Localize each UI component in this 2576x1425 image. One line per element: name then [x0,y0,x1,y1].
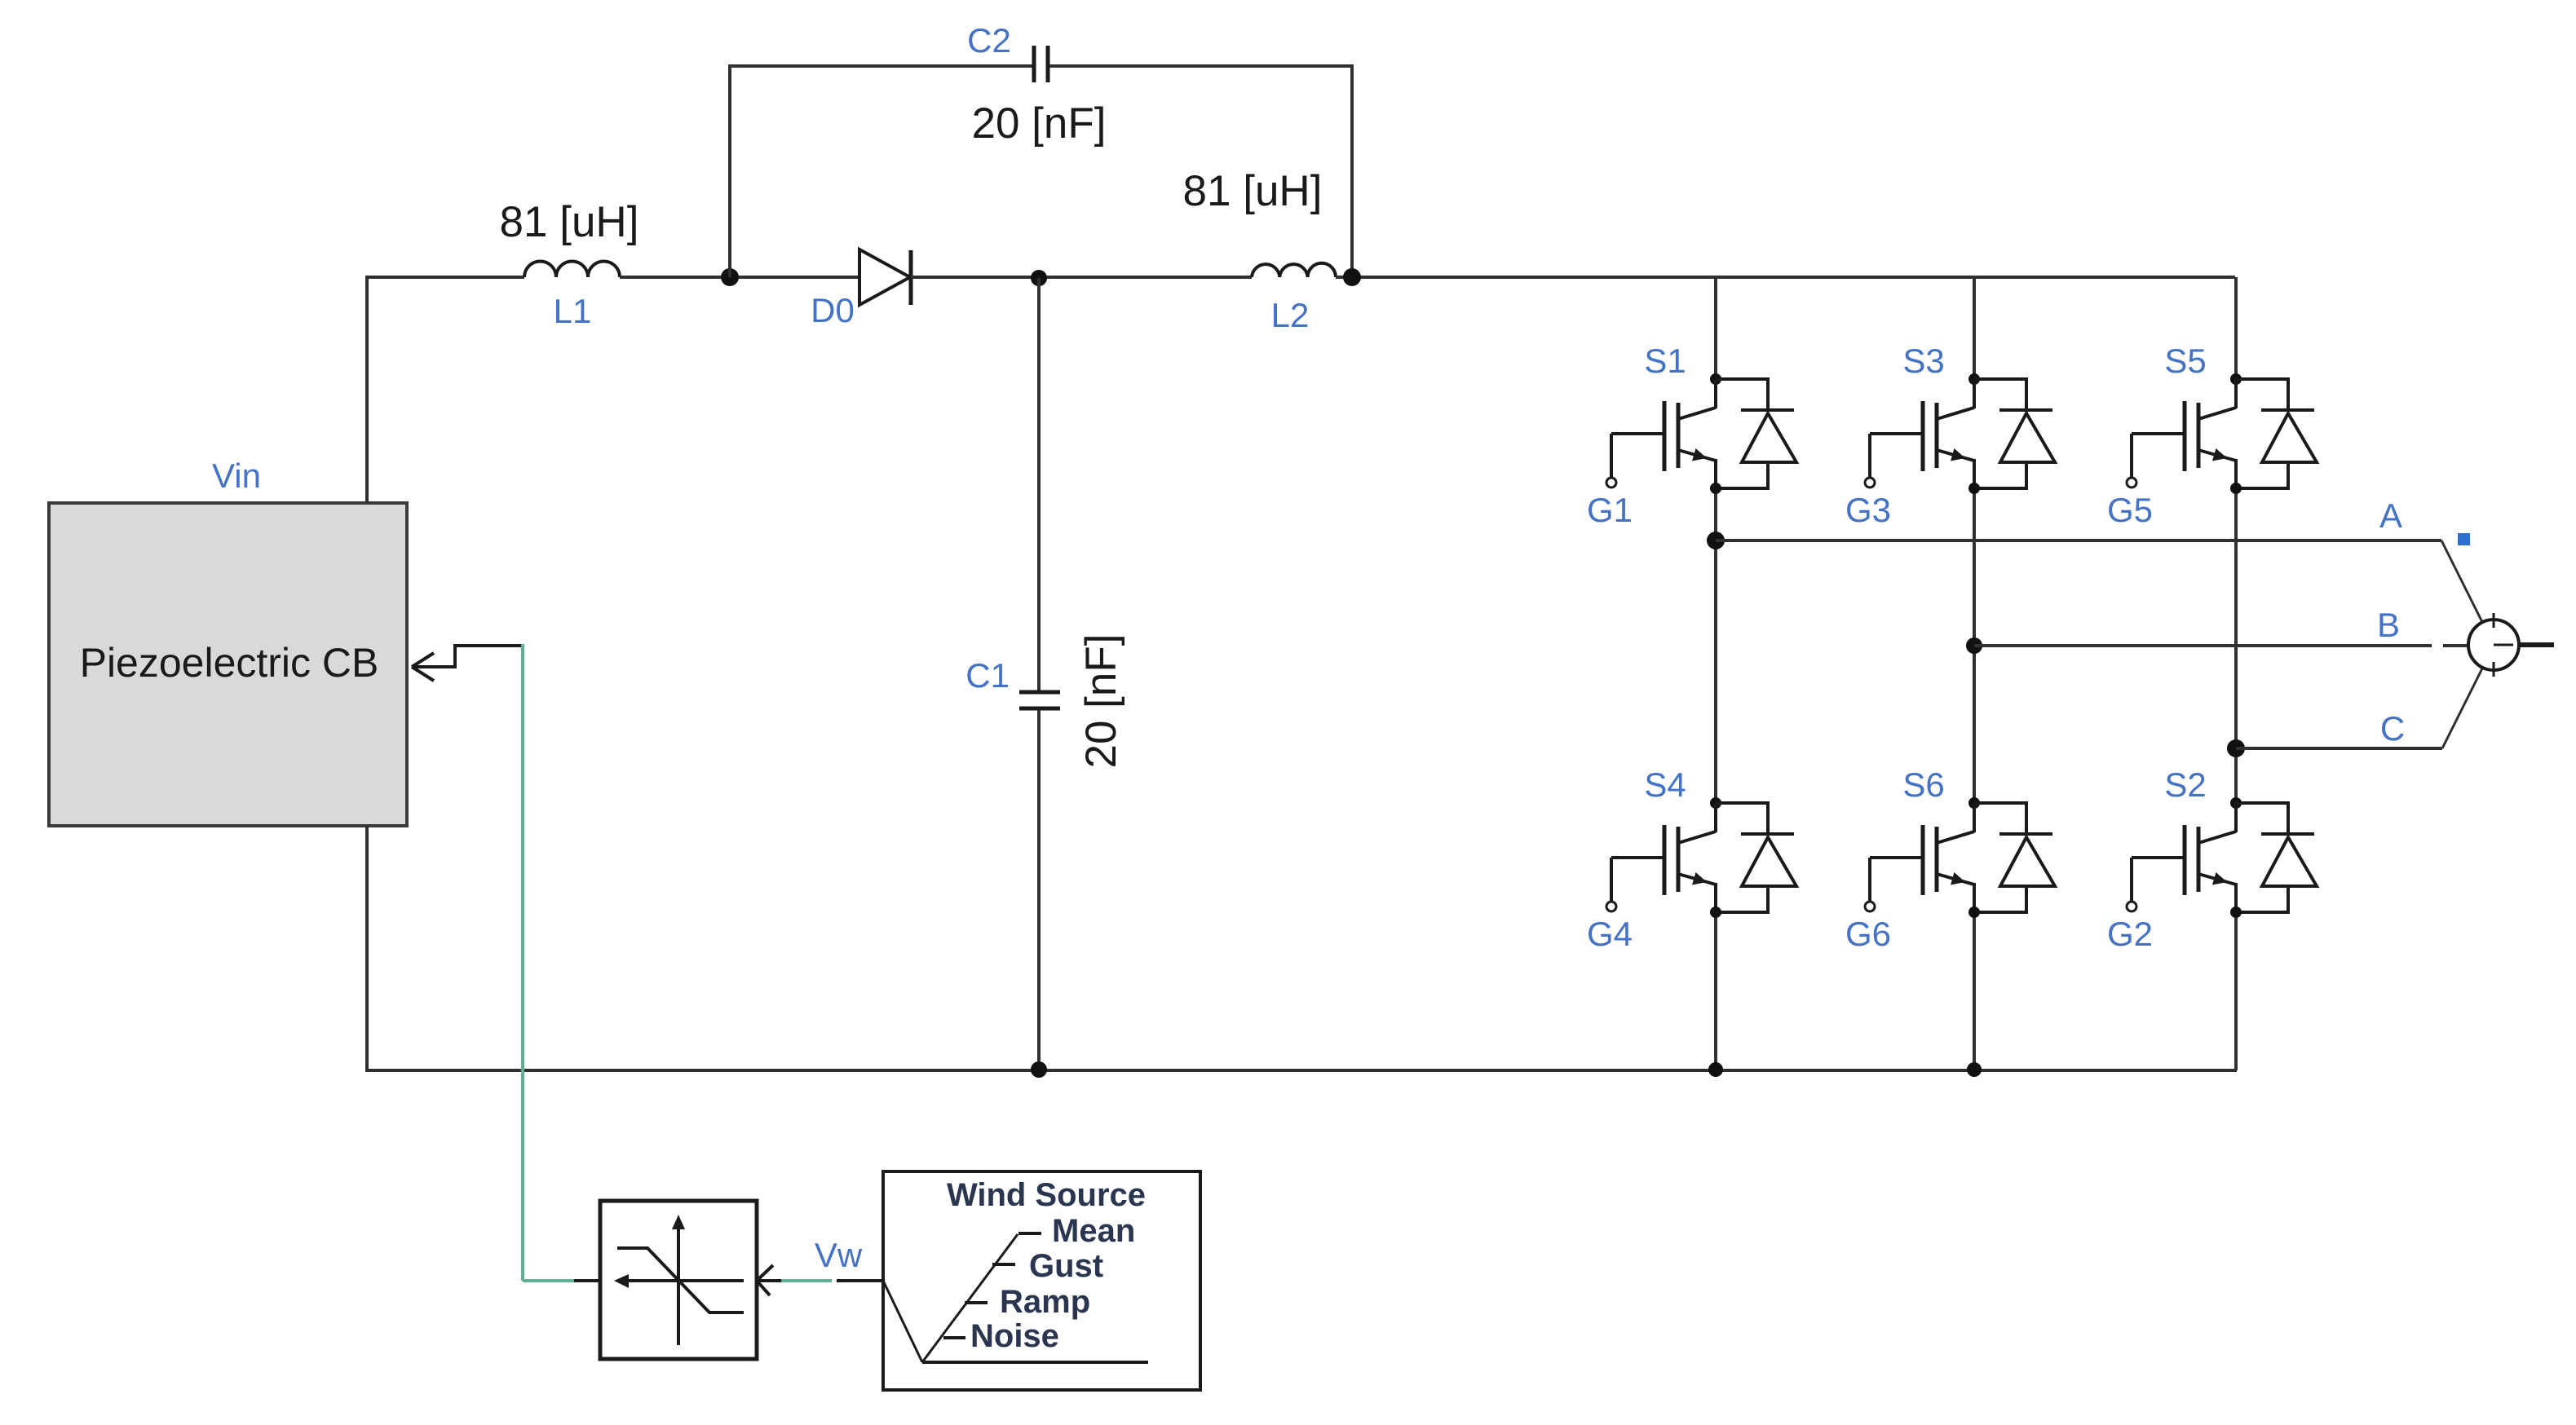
node A label [2379,496,2402,535]
node junction dot L2/C2 right [1343,268,1361,286]
transistor S6 (IGBT with antiparallel diode) [1845,765,2055,953]
svg-text:C2: C2 [967,21,1011,60]
wire C1 vertical lower [1037,710,1041,1070]
wire leg2 rail bottom [1973,912,1976,1070]
wire left vertical (top bus to piezo top) [365,277,369,503]
transistor S4 (IGBT with antiparallel diode) [1587,765,1796,953]
transistor S5 (IGBT with antiparallel diode) [2107,342,2317,529]
saturation (hard limiter) block [600,1201,757,1359]
wire D0 cathode to L2 [911,276,1252,279]
node blue square marker [2458,533,2470,545]
wire leg3 rail middle [2234,488,2238,803]
wire Vw into saturation block with arrowhead [757,1265,781,1295]
node Vw label [815,1236,863,1274]
svg-text:Wind Source: Wind Source [947,1177,1146,1213]
svg-text:20 [nF]: 20 [nF] [972,99,1107,148]
svg-text:A: A [2379,496,2402,535]
wire leg1 rail bottom [1714,912,1717,1070]
svg-text:S4: S4 [1644,765,1686,804]
svg-text:G2: G2 [2107,915,2153,953]
wire leg2 rail middle [1973,488,1976,803]
node C label [2380,709,2405,748]
wire phase B [1966,637,2468,654]
wire phase A [1707,532,2482,622]
node junction dot C1 bottom [1031,1061,1047,1078]
svg-text:Ramp: Ramp [1000,1284,1090,1320]
svg-text:S2: S2 [2164,765,2206,804]
Piezoelectric CB block [49,503,407,826]
wire feedback arrow into Piezoelectric CB [412,646,524,681]
svg-text:Noise: Noise [970,1318,1059,1354]
wire feedback green vertical [521,644,524,1281]
svg-text:S1: S1 [1644,342,1686,380]
wire into saturation block [574,1279,600,1282]
svg-text:Gust: Gust [1029,1248,1103,1284]
inductor L2 [1183,167,1336,334]
svg-text:Vin: Vin [212,457,261,495]
svg-text:81 [uH]: 81 [uH] [500,198,639,246]
transistor S2 (IGBT with antiparallel diode) [2107,765,2317,953]
node junction dot S6 on bottom bus [1967,1062,1982,1077]
svg-text:G3: G3 [1845,491,1891,529]
svg-text:Mean: Mean [1052,1213,1135,1249]
svg-text:81 [uH]: 81 [uH] [1183,167,1323,215]
wire C2 right vertical [1350,66,1354,277]
wire C2 left vertical [728,66,731,277]
wire left vertical (piezo bottom to bottom bus) [365,826,369,1070]
Wind Source block [883,1171,1200,1390]
svg-text:G5: G5 [2107,491,2153,529]
node junction dot D0 anode / C2 left branch [721,268,739,286]
svg-text:L2: L2 [1271,296,1310,334]
svg-text:S5: S5 [2164,342,2206,380]
wire C2 top right segment [1049,64,1354,68]
svg-text:G4: G4 [1587,915,1633,953]
node Vin label [212,457,261,495]
wire leg1 rail top [1714,277,1717,379]
svg-text:G1: G1 [1587,491,1633,529]
wire C2 top left segment [728,64,1032,68]
svg-text:G6: G6 [1845,915,1891,953]
svg-text:Piezoelectric CB: Piezoelectric CB [80,640,379,686]
wire top bus left of L1 [365,276,524,279]
wire L2 to right junction [1336,276,2235,279]
capacitor C1 [965,634,1125,769]
wire phase C [2227,668,2482,757]
wire bottom bus [365,1069,2237,1072]
wire leg3 rail top [2234,277,2238,379]
svg-text:B: B [2377,606,2400,644]
wire Vw to Wind Source box [837,1279,883,1282]
svg-text:D0: D0 [811,291,855,329]
svg-text:Vw: Vw [815,1236,863,1274]
wire C1 vertical upper [1037,278,1041,690]
svg-text:S6: S6 [1902,765,1944,804]
wire leg3 rail bottom [2234,912,2238,1070]
wire feedback green horizontal [523,1279,574,1282]
node B label [2377,606,2400,644]
svg-text:20 [nF]: 20 [nF] [1077,634,1125,769]
diode D0 [811,249,911,329]
capacitor C2 [967,21,1106,148]
wire green dash on Vw net [781,1279,832,1282]
svg-text:C: C [2380,709,2405,748]
inductor L1 [500,198,639,330]
transistor S3 (IGBT with antiparallel diode) [1845,342,2055,529]
node junction dot S4 on bottom bus [1708,1062,1723,1077]
wire leg1 rail middle [1714,488,1717,803]
wire leg2 rail top [1973,277,1976,379]
svg-text:C1: C1 [965,656,1010,695]
svg-text:S3: S3 [1902,342,1944,380]
wire L1 to D0 junction [620,276,859,279]
machine / source circle [2468,613,2554,677]
node junction dot C1 top [1031,270,1047,286]
transistor S1 (IGBT with antiparallel diode) [1587,342,1796,529]
svg-text:L1: L1 [554,292,592,330]
